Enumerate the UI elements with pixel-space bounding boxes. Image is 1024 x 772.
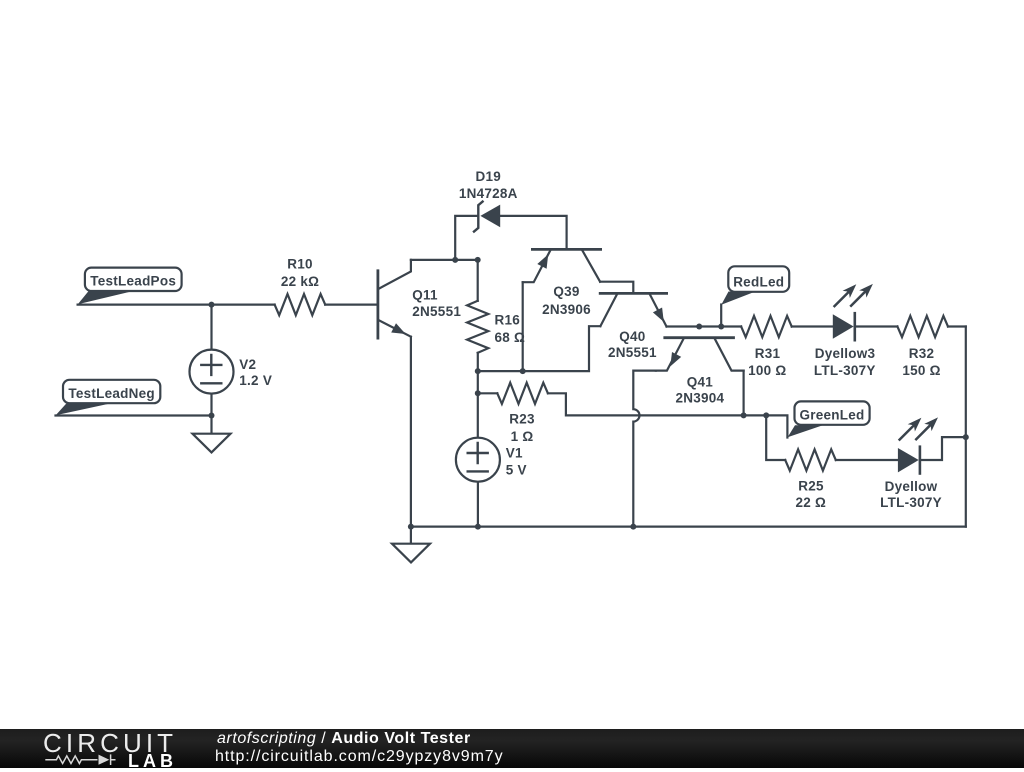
wire: ground rail (bottom): [411, 525, 966, 527]
wire: Q41 emitter to ground rail (hop over x-wire): [633, 371, 656, 527]
wire: branch down to R25: [766, 415, 785, 460]
net flag RedLed: [721, 266, 789, 305]
junction: R25 branch node: [763, 412, 769, 418]
wire: right rail: [965, 327, 967, 527]
resistor R25: [785, 449, 836, 470]
wire: R23 left lead: [478, 392, 498, 394]
net flag TestLeadPos: [78, 268, 182, 305]
wire: Q39 emitter down to rail y371: [522, 282, 524, 371]
resistor R23: [497, 383, 548, 404]
CircuitLab logo: CIRCUIT: [43, 728, 177, 759]
junction: Q41 collector node: [741, 412, 747, 418]
net flag GreenLed: [788, 401, 870, 437]
wire: R16 bottom to V1 plus: [477, 353, 479, 438]
junction: rail y371 left node: [475, 368, 481, 374]
junction: Q41 base node: [696, 324, 702, 330]
ground G1 (under V2): [193, 416, 231, 453]
net flag TestLeadNeg: [56, 380, 161, 416]
wire: Q11 emitter to ground rail: [410, 337, 412, 527]
junction: right rail node: [963, 434, 969, 440]
wire: R25 to Dyellow: [836, 459, 898, 461]
wire: R16 top lead: [477, 260, 479, 301]
wire: Q40 emitter row to R31: [667, 325, 742, 327]
junction: Q41 emitter rail node: [630, 524, 636, 530]
wire: V2 bottom lead: [210, 394, 212, 416]
zener diode D19: [474, 202, 500, 232]
LED Dyellow3: [833, 284, 873, 340]
junction: D19 anode node: [452, 257, 458, 263]
wire: R23 to GreenLed stub: [548, 393, 788, 437]
footer url line: [215, 748, 504, 766]
wire: V1 minus to ground rail: [477, 482, 479, 527]
junction: Q39 emitter node: [520, 368, 526, 374]
wire: R31 to Dyellow3: [792, 325, 833, 327]
wire: D19 to Q39 base: [500, 216, 566, 250]
transistor Q39: [523, 249, 601, 282]
wire: D19 left lead down to collector node: [455, 216, 478, 260]
wire: V2 top lead: [210, 305, 212, 350]
ground G2 (bottom rail): [392, 527, 430, 563]
wire: Dyellow3 to R32: [856, 325, 897, 327]
wire: Q39 collector to Q40 base: [600, 282, 633, 294]
transistor Q40: [600, 293, 666, 326]
junction: R16 top node: [475, 257, 481, 263]
wire: R10 to Q11 base: [325, 304, 378, 306]
junction: rail left node: [408, 524, 414, 530]
transistor Q41: [656, 338, 744, 371]
junction: V1 rail node: [475, 524, 481, 530]
resistor R32: [897, 316, 948, 337]
wire: Q41 collector down to node: [742, 371, 744, 416]
resistor R10: [275, 294, 326, 315]
junction: R23 left node: [475, 390, 481, 396]
wire: Dyellow to right rail: [921, 437, 966, 460]
junction: RedLed node: [718, 324, 724, 330]
junction: V2 bottom node: [209, 413, 215, 419]
resistor R31: [741, 316, 792, 337]
junction: V2 top node: [209, 302, 215, 308]
wire: TestLeadNeg to V2 bottom node: [56, 414, 212, 416]
resistor R16: [467, 301, 488, 353]
voltage source V2: [190, 350, 234, 394]
footer title line: [217, 730, 471, 748]
transistor Q11: [378, 260, 411, 338]
wire: node rail y371 to Q40 collector: [478, 326, 601, 371]
wire: RedLed stub: [720, 305, 722, 327]
footer bar: [0, 729, 1024, 769]
CircuitLab logo: LAB: [128, 751, 177, 772]
wire: R32 to right rail: [948, 325, 966, 327]
voltage source V1: [456, 438, 500, 482]
LED Dyellow: [898, 417, 938, 473]
wire: Q11 collector to R16 top: [411, 259, 478, 261]
wire: TestLeadPos to R10: [78, 304, 275, 306]
